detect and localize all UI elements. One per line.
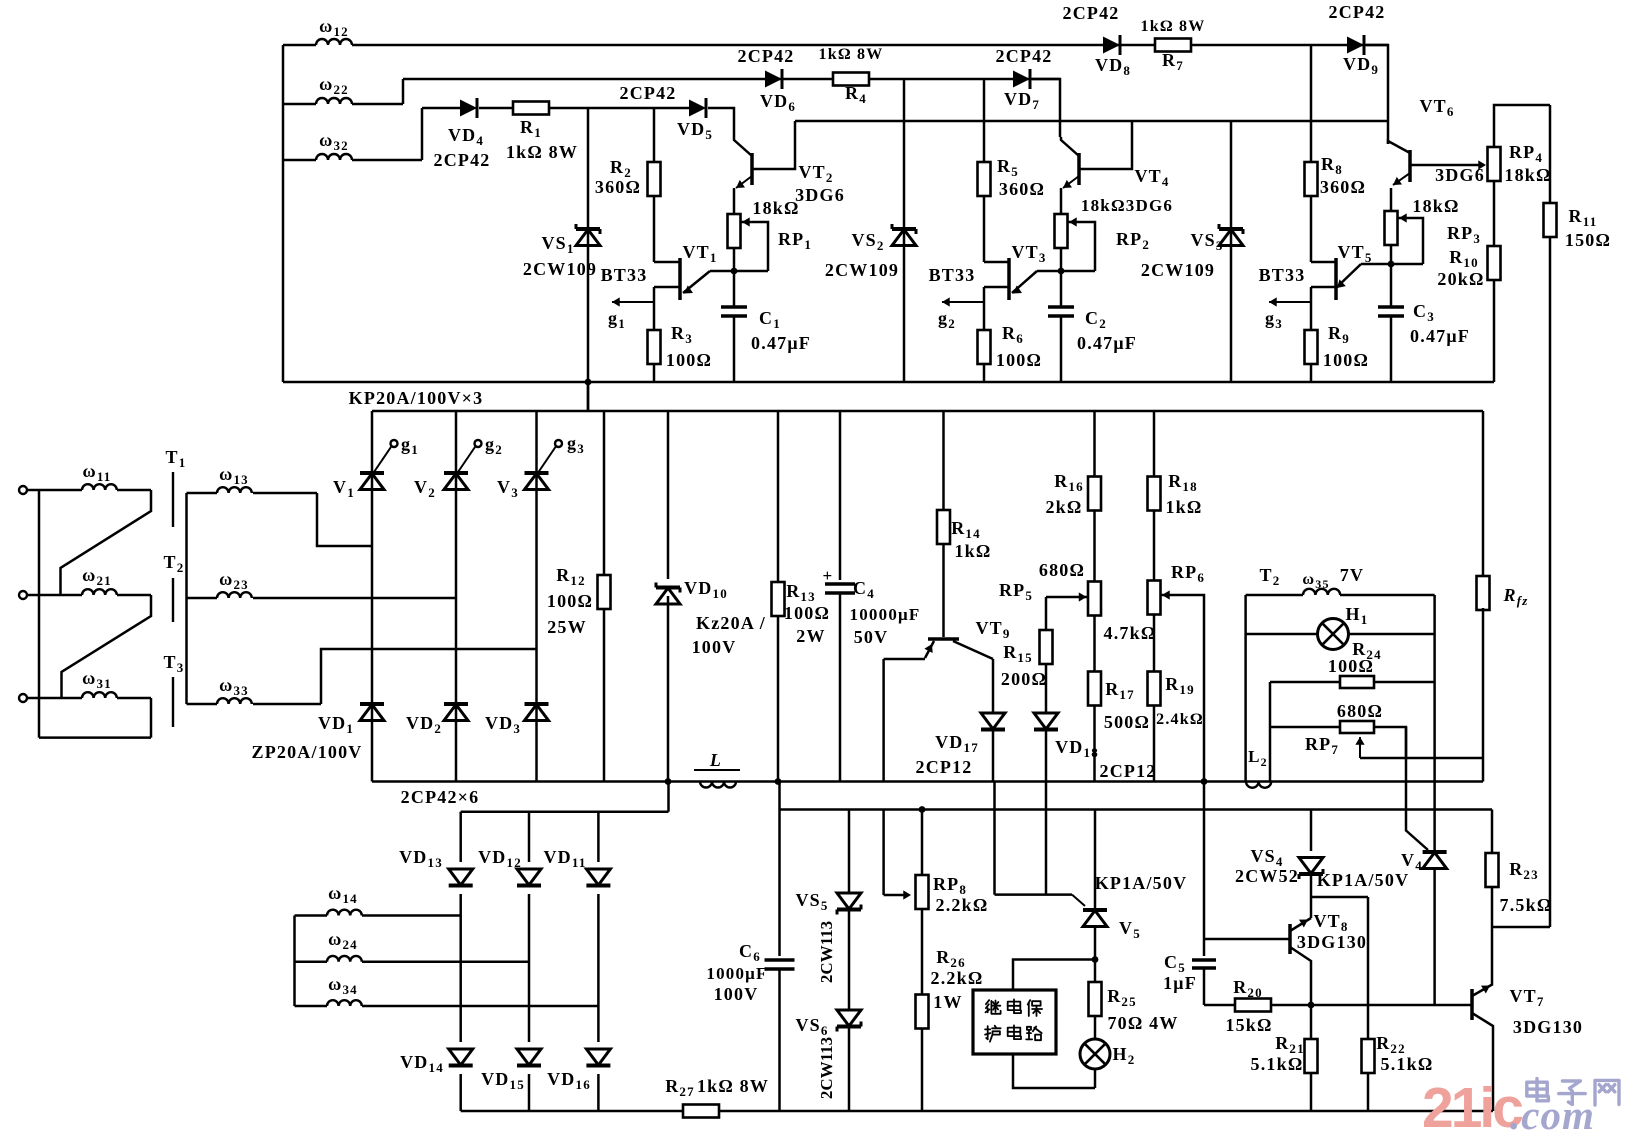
svg-text:360Ω: 360Ω [595,177,641,197]
svg-text:2CW52: 2CW52 [1235,866,1299,886]
svg-text:1kΩ: 1kΩ [1165,497,1202,517]
svg-text:3DG130: 3DG130 [1297,932,1367,952]
svg-text:100Ω: 100Ω [666,350,712,370]
svg-text:2CP42: 2CP42 [1329,2,1386,22]
svg-text:10000μF: 10000μF [850,605,921,624]
svg-text:KP1A/50V: KP1A/50V [1317,870,1410,890]
svg-text:18kΩ: 18kΩ [1504,165,1551,185]
svg-text:360Ω: 360Ω [999,179,1045,199]
svg-text:150Ω: 150Ω [1565,230,1611,250]
svg-text:100Ω: 100Ω [1323,350,1369,370]
svg-text:100Ω: 100Ω [547,591,593,611]
svg-text:2CW109: 2CW109 [523,259,597,279]
svg-text:2CP42×6: 2CP42×6 [401,787,480,807]
svg-text:1kΩ 8W: 1kΩ 8W [697,1076,769,1096]
svg-text:360Ω: 360Ω [1320,177,1366,197]
svg-text:L: L [709,750,722,770]
svg-text:18kΩ: 18kΩ [752,198,799,218]
svg-text:100V: 100V [692,637,737,657]
svg-text:2CP42: 2CP42 [738,46,795,66]
svg-text:100V: 100V [714,984,759,1004]
svg-text:2CP42: 2CP42 [620,83,677,103]
svg-text:1W: 1W [933,992,962,1012]
svg-text:2.2kΩ: 2.2kΩ [931,968,984,988]
svg-text:7.5kΩ: 7.5kΩ [1500,895,1553,915]
svg-text:2CW113: 2CW113 [817,1037,836,1099]
svg-text:3DG6: 3DG6 [1435,165,1485,185]
svg-text:2CP42: 2CP42 [434,150,491,170]
svg-text:1kΩ 8W: 1kΩ 8W [1141,18,1206,35]
svg-text:21ic: 21ic [1422,1076,1523,1130]
svg-text:3DG130: 3DG130 [1513,1017,1583,1037]
svg-text:680Ω: 680Ω [1039,560,1085,580]
svg-text:BT33: BT33 [1259,265,1306,285]
svg-text:2W: 2W [796,626,825,646]
svg-text:18kΩ3DG6: 18kΩ3DG6 [1081,196,1173,215]
svg-text:2CW109: 2CW109 [1141,260,1215,280]
svg-text:2kΩ: 2kΩ [1045,497,1082,517]
svg-text:+: + [823,566,834,585]
svg-text:20kΩ: 20kΩ [1437,269,1484,289]
svg-text:Kz20A /: Kz20A / [696,613,766,633]
svg-text:1kΩ 8W: 1kΩ 8W [819,46,884,63]
svg-text:5.1kΩ: 5.1kΩ [1251,1054,1304,1074]
svg-text:25W: 25W [547,617,587,637]
svg-text:KP1A/50V: KP1A/50V [1095,873,1188,893]
svg-text:15kΩ: 15kΩ [1225,1015,1272,1035]
svg-text:3DG6: 3DG6 [795,185,845,205]
svg-text:2CP42: 2CP42 [1063,3,1120,23]
svg-text:BT33: BT33 [929,265,976,285]
svg-text:5.1kΩ: 5.1kΩ [1381,1054,1434,1074]
svg-text:BT33: BT33 [601,265,648,285]
svg-text:50V: 50V [854,627,889,647]
svg-text:KP20A/100V×3: KP20A/100V×3 [349,388,484,408]
svg-text:100Ω: 100Ω [1328,656,1374,676]
svg-text:0.47μF: 0.47μF [751,333,811,353]
svg-text:2CP12: 2CP12 [1100,761,1157,781]
svg-text:1kΩ: 1kΩ [954,541,991,561]
svg-text:1μF: 1μF [1163,973,1197,993]
svg-text:2CW113: 2CW113 [817,921,836,983]
svg-text:2.4kΩ: 2.4kΩ [1156,711,1204,728]
svg-text:ZP20A/100V: ZP20A/100V [252,742,363,762]
svg-text:7V: 7V [1340,565,1364,585]
svg-text:70Ω 4W: 70Ω 4W [1107,1013,1178,1033]
svg-text:0.47μF: 0.47μF [1077,333,1137,353]
svg-text:100Ω: 100Ω [784,603,830,623]
svg-text:0.47μF: 0.47μF [1410,326,1470,346]
svg-text:1kΩ 8W: 1kΩ 8W [506,142,578,162]
svg-text:2CW109: 2CW109 [825,260,899,280]
svg-text:.com: .com [1510,1092,1595,1130]
svg-text:18kΩ: 18kΩ [1412,196,1459,216]
svg-text:1000μF: 1000μF [706,964,767,983]
svg-text:500Ω: 500Ω [1104,712,1150,732]
svg-text:2CP12: 2CP12 [916,757,973,777]
svg-text:2CP42: 2CP42 [996,46,1053,66]
svg-text:100Ω: 100Ω [996,350,1042,370]
svg-text:680Ω: 680Ω [1337,701,1383,721]
svg-text:4.7kΩ: 4.7kΩ [1104,623,1157,643]
svg-text:200Ω: 200Ω [1001,669,1047,689]
svg-text:2.2kΩ: 2.2kΩ [936,895,989,915]
